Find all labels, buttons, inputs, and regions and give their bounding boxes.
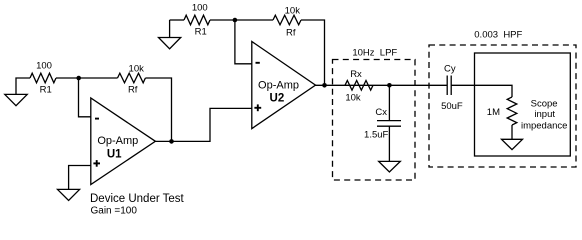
svg-text:U2: U2 bbox=[270, 92, 285, 104]
svg-text:Op-Amp: Op-Amp bbox=[97, 135, 138, 147]
svg-text:1M: 1M bbox=[487, 107, 500, 118]
svg-text:Cy: Cy bbox=[444, 63, 456, 74]
svg-text:R1: R1 bbox=[40, 85, 52, 96]
svg-text:R1: R1 bbox=[195, 27, 207, 38]
svg-text:10Hz LPF: 10Hz LPF bbox=[352, 47, 397, 58]
svg-text:10k: 10k bbox=[285, 6, 301, 17]
svg-text:Op-Amp: Op-Amp bbox=[258, 79, 299, 91]
svg-text:1.5uF: 1.5uF bbox=[364, 129, 388, 140]
svg-text:Rf: Rf bbox=[286, 27, 296, 38]
svg-text:U1: U1 bbox=[107, 149, 122, 161]
svg-text:impedance: impedance bbox=[521, 121, 567, 132]
svg-text:Gain =100: Gain =100 bbox=[91, 205, 138, 216]
svg-text:Scope: Scope bbox=[531, 98, 558, 109]
svg-text:100: 100 bbox=[192, 2, 208, 13]
svg-text:10k: 10k bbox=[129, 63, 145, 74]
svg-text:10k: 10k bbox=[345, 93, 361, 104]
svg-text:50uF: 50uF bbox=[441, 101, 463, 112]
svg-text:input: input bbox=[534, 109, 555, 120]
svg-text:Cx: Cx bbox=[375, 107, 387, 118]
svg-text:Rx: Rx bbox=[350, 69, 362, 80]
svg-text:Device Under Test: Device Under Test bbox=[90, 193, 185, 205]
svg-text:Rf: Rf bbox=[128, 84, 138, 95]
svg-text:0.003 HPF: 0.003 HPF bbox=[474, 29, 522, 40]
svg-text:100: 100 bbox=[36, 60, 52, 71]
